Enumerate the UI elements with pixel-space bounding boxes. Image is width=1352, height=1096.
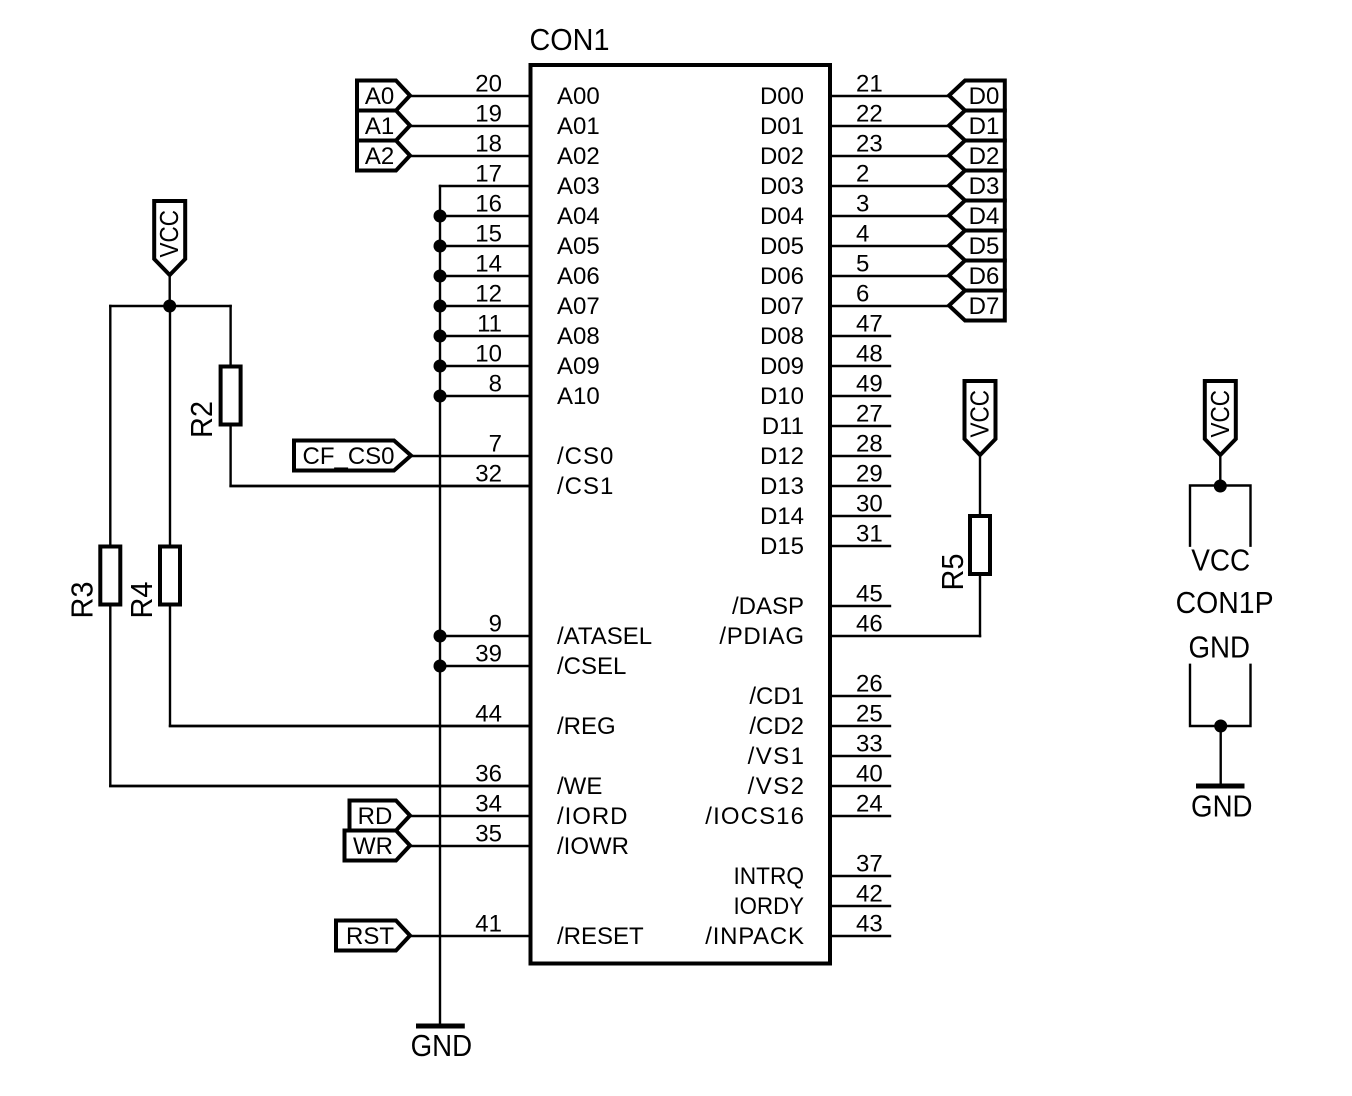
svg-text:48: 48 bbox=[856, 340, 883, 367]
resistor R3 bbox=[100, 547, 120, 605]
svg-text:19: 19 bbox=[475, 100, 502, 127]
junction CON1P VCC bbox=[1214, 480, 1227, 493]
resistor R4 bbox=[160, 547, 180, 605]
net flag WR bbox=[345, 831, 411, 861]
resistor R5 bbox=[970, 516, 990, 574]
pin 8 (A10) wire bbox=[440, 370, 600, 410]
pin 33 (/VS1) wire bbox=[748, 730, 890, 770]
pin label VCC (CON1P) bbox=[1191, 543, 1250, 578]
svg-text:A03: A03 bbox=[557, 173, 600, 200]
svg-text:7: 7 bbox=[489, 430, 502, 457]
svg-text:A01: A01 bbox=[557, 113, 600, 140]
pin 47 (D08) wire bbox=[760, 310, 890, 350]
svg-text:D13: D13 bbox=[760, 473, 804, 500]
svg-text:23: 23 bbox=[856, 130, 883, 157]
svg-text:D7: D7 bbox=[969, 293, 1000, 320]
pin 43 (/INPACK) wire bbox=[705, 910, 890, 950]
wire CON1P VCC pins bracket bbox=[1190, 486, 1251, 546]
svg-text:D01: D01 bbox=[760, 113, 804, 140]
pin 27 (D11) wire bbox=[762, 400, 890, 440]
svg-text:/VS1: /VS1 bbox=[748, 743, 804, 770]
svg-text:4: 4 bbox=[856, 220, 869, 247]
svg-text:16: 16 bbox=[475, 190, 502, 217]
svg-text:29: 29 bbox=[856, 460, 883, 487]
wire VCC to R3 bbox=[109, 306, 111, 547]
svg-text:D14: D14 bbox=[760, 503, 804, 530]
svg-text:A05: A05 bbox=[557, 233, 600, 260]
svg-text:D6: D6 bbox=[969, 263, 1000, 290]
net flag RST bbox=[336, 921, 410, 951]
svg-text:A07: A07 bbox=[557, 293, 600, 320]
net flag D7 bbox=[949, 291, 1005, 321]
svg-text:27: 27 bbox=[856, 400, 883, 427]
svg-text:A1: A1 bbox=[365, 113, 394, 140]
svg-text:31: 31 bbox=[856, 520, 883, 547]
svg-text:D10: D10 bbox=[760, 383, 804, 410]
svg-text:D0: D0 bbox=[969, 83, 1000, 110]
junction bus at pin row y=396 bbox=[434, 390, 447, 403]
pin 5 (D06) wire bbox=[760, 250, 949, 290]
svg-text:42: 42 bbox=[856, 880, 883, 907]
svg-text:28: 28 bbox=[856, 430, 883, 457]
svg-text:VCC: VCC bbox=[965, 390, 995, 438]
svg-text:24: 24 bbox=[856, 790, 883, 817]
wire VCC stem to junction bbox=[168, 275, 170, 306]
pin 10 (A09) wire bbox=[440, 340, 600, 380]
svg-text:44: 44 bbox=[475, 700, 502, 727]
power flag VCC (CON1P) bbox=[1205, 381, 1236, 455]
net flag D6 bbox=[949, 261, 1005, 291]
svg-text:D4: D4 bbox=[969, 203, 1000, 230]
junction bus at pin row y=276 bbox=[434, 270, 447, 283]
pin 14 (A06) wire bbox=[440, 250, 600, 290]
svg-text:10: 10 bbox=[475, 340, 502, 367]
svg-text:9: 9 bbox=[489, 610, 502, 637]
svg-text:D12: D12 bbox=[760, 443, 804, 470]
svg-text:A00: A00 bbox=[557, 83, 600, 110]
svg-text:A09: A09 bbox=[557, 353, 600, 380]
svg-text:3: 3 bbox=[856, 190, 869, 217]
pin 45 (/DASP) wire bbox=[732, 580, 890, 620]
svg-text:INTRQ: INTRQ bbox=[734, 863, 805, 890]
pin 31 (D15) wire bbox=[760, 520, 890, 560]
junction bus at pin row y=336 bbox=[434, 330, 447, 343]
svg-text:43: 43 bbox=[856, 910, 883, 937]
pin 41 (/RESET) wire bbox=[410, 910, 644, 950]
net flag CF_CS0 bbox=[294, 441, 411, 471]
svg-text:40: 40 bbox=[856, 760, 883, 787]
svg-text:D06: D06 bbox=[760, 263, 804, 290]
svg-text:R5: R5 bbox=[935, 554, 970, 591]
svg-text:37: 37 bbox=[856, 850, 883, 877]
label CON1 bbox=[530, 22, 610, 57]
svg-text:45: 45 bbox=[856, 580, 883, 607]
svg-text:A06: A06 bbox=[557, 263, 600, 290]
pin 21 (D00) wire bbox=[760, 70, 949, 110]
net flag A1 bbox=[357, 111, 410, 141]
label R5 bbox=[935, 554, 970, 591]
svg-text:34: 34 bbox=[475, 790, 502, 817]
junction at VCC node bbox=[163, 300, 176, 313]
junction bus at pin row y=246 bbox=[434, 240, 447, 253]
pin 48 (D09) wire bbox=[760, 340, 890, 380]
svg-text:D07: D07 bbox=[760, 293, 804, 320]
svg-text:D2: D2 bbox=[969, 143, 1000, 170]
pin 29 (D13) wire bbox=[760, 460, 890, 500]
svg-text:11: 11 bbox=[477, 310, 502, 337]
svg-text:D1: D1 bbox=[969, 113, 1000, 140]
power flag VCC (middle) bbox=[965, 381, 996, 455]
pin 35 (/IOWR) wire bbox=[410, 820, 629, 860]
wire VCC to R4 bbox=[169, 306, 171, 547]
pin 22 (D01) wire bbox=[760, 100, 949, 140]
label R2 bbox=[184, 401, 219, 438]
svg-text:12: 12 bbox=[475, 280, 502, 307]
svg-text:D09: D09 bbox=[760, 353, 804, 380]
wire R2 to /CS1 bbox=[231, 425, 531, 487]
svg-text:/PDIAG: /PDIAG bbox=[719, 623, 804, 650]
ground GND (bottom) bbox=[411, 1026, 473, 1063]
pin 23 (D02) wire bbox=[760, 130, 949, 170]
pin 28 (D12) wire bbox=[760, 430, 890, 470]
power flag VCC (left) bbox=[154, 201, 185, 275]
svg-text:R2: R2 bbox=[184, 401, 219, 438]
pin 6 (D07) wire bbox=[760, 280, 949, 320]
wire GND stem (CON1P) bbox=[1219, 726, 1221, 784]
svg-text:IORDY: IORDY bbox=[734, 893, 805, 920]
wire VCC to R2 bbox=[229, 306, 231, 367]
pin 18 (A02) wire bbox=[410, 130, 600, 170]
junction bus at pin row y=306 bbox=[434, 300, 447, 313]
net flag D5 bbox=[949, 231, 1005, 261]
svg-text:/IOCS16: /IOCS16 bbox=[705, 803, 804, 830]
net flag A2 bbox=[357, 141, 410, 171]
svg-text:21: 21 bbox=[856, 70, 883, 97]
svg-text:30: 30 bbox=[856, 490, 883, 517]
svg-text:RD: RD bbox=[358, 803, 393, 830]
svg-text:A2: A2 bbox=[365, 143, 394, 170]
svg-text:D00: D00 bbox=[760, 83, 804, 110]
svg-text:A0: A0 bbox=[365, 83, 394, 110]
svg-text:D3: D3 bbox=[969, 173, 1000, 200]
svg-text:D02: D02 bbox=[760, 143, 804, 170]
svg-text:D11: D11 bbox=[762, 413, 804, 440]
pin 12 (A07) wire bbox=[440, 280, 600, 320]
net flag A0 bbox=[357, 81, 410, 111]
svg-text:D04: D04 bbox=[760, 203, 804, 230]
svg-text:39: 39 bbox=[475, 640, 502, 667]
label CON1P bbox=[1176, 585, 1274, 620]
svg-text:26: 26 bbox=[856, 670, 883, 697]
svg-text:33: 33 bbox=[856, 730, 883, 757]
connector CON1 body bbox=[531, 65, 831, 964]
svg-text:14: 14 bbox=[475, 250, 502, 277]
pin 4 (D05) wire bbox=[760, 220, 949, 260]
svg-text:20: 20 bbox=[475, 70, 502, 97]
net flag D0 bbox=[949, 81, 1005, 111]
pin 37 (INTRQ) wire bbox=[734, 850, 891, 890]
svg-text:D05: D05 bbox=[760, 233, 804, 260]
pin 15 (A05) wire bbox=[440, 220, 600, 260]
svg-text:/IORD: /IORD bbox=[557, 803, 628, 830]
svg-text:WR: WR bbox=[353, 833, 393, 860]
svg-text:CON1P: CON1P bbox=[1176, 585, 1274, 620]
pin 7 (/CS0) wire bbox=[411, 430, 613, 470]
svg-text:/VS2: /VS2 bbox=[748, 773, 804, 800]
resistor R2 bbox=[221, 367, 241, 425]
svg-text:GND: GND bbox=[1191, 788, 1253, 823]
junction bus at pin row y=666 bbox=[434, 660, 447, 673]
svg-text:/CSEL: /CSEL bbox=[557, 653, 626, 680]
pin 3 (D04) wire bbox=[760, 190, 949, 230]
svg-text:A10: A10 bbox=[557, 383, 600, 410]
svg-text:/DASP: /DASP bbox=[732, 593, 804, 620]
svg-text:6: 6 bbox=[856, 280, 869, 307]
svg-text:CON1: CON1 bbox=[530, 22, 610, 57]
svg-text:R3: R3 bbox=[65, 582, 100, 619]
svg-text:/CS1: /CS1 bbox=[557, 473, 613, 500]
svg-text:/ATASEL: /ATASEL bbox=[557, 623, 652, 650]
pin 46 (/PDIAG) wire bbox=[719, 610, 980, 650]
svg-text:49: 49 bbox=[856, 370, 883, 397]
svg-text:D08: D08 bbox=[760, 323, 804, 350]
junction bus at pin row y=366 bbox=[434, 360, 447, 373]
svg-text:CF_CS0: CF_CS0 bbox=[302, 443, 394, 470]
svg-text:/CD1: /CD1 bbox=[749, 683, 804, 710]
svg-text:VCC: VCC bbox=[1205, 390, 1235, 438]
svg-text:17: 17 bbox=[475, 160, 502, 187]
junction CON1P GND bbox=[1214, 720, 1227, 733]
svg-text:R4: R4 bbox=[124, 582, 159, 619]
label R3 bbox=[65, 582, 100, 619]
svg-text:VCC: VCC bbox=[1191, 543, 1250, 578]
pin 19 (A01) wire bbox=[410, 100, 600, 140]
svg-text:RST: RST bbox=[346, 923, 394, 950]
pin 20 (A00) wire bbox=[410, 70, 600, 110]
svg-text:D03: D03 bbox=[760, 173, 804, 200]
pin 16 (A04) wire bbox=[440, 190, 600, 230]
pin 11 (A08) wire bbox=[440, 310, 600, 350]
svg-text:GND: GND bbox=[411, 1028, 473, 1063]
pin 26 (/CD1) wire bbox=[749, 670, 890, 710]
wire ground bus vertical bbox=[439, 186, 441, 1024]
svg-text:A04: A04 bbox=[557, 203, 600, 230]
pin 17 (A03) wire bbox=[440, 160, 600, 200]
pin 39 (/CSEL) wire bbox=[440, 640, 626, 680]
wire CON1P GND pins bracket bbox=[1190, 665, 1251, 726]
pin 49 (D10) wire bbox=[760, 370, 890, 410]
svg-text:/REG: /REG bbox=[557, 713, 616, 740]
svg-text:GND: GND bbox=[1188, 629, 1250, 664]
svg-text:5: 5 bbox=[856, 250, 869, 277]
pin 44 (/REG) wire bbox=[170, 700, 616, 740]
ground GND (CON1P) bbox=[1191, 786, 1253, 823]
svg-text:22: 22 bbox=[856, 100, 883, 127]
net flag RD bbox=[350, 801, 411, 831]
pin 42 (IORDY) wire bbox=[734, 880, 891, 920]
svg-text:18: 18 bbox=[475, 130, 502, 157]
pin 36 (/WE) wire bbox=[110, 760, 602, 800]
pin 32 (/CS1) wire bbox=[231, 460, 614, 500]
net flag D4 bbox=[949, 201, 1005, 231]
pin 40 (/VS2) wire bbox=[748, 760, 890, 800]
svg-text:41: 41 bbox=[475, 910, 502, 937]
pin label GND (CON1P) bbox=[1188, 629, 1250, 664]
svg-text:15: 15 bbox=[475, 220, 502, 247]
svg-text:A02: A02 bbox=[557, 143, 600, 170]
junction bus at pin row y=636 bbox=[434, 630, 447, 643]
svg-text:D15: D15 bbox=[760, 533, 804, 560]
svg-text:35: 35 bbox=[475, 820, 502, 847]
svg-text:/INPACK: /INPACK bbox=[705, 923, 804, 950]
pin 24 (/IOCS16) wire bbox=[705, 790, 890, 830]
svg-text:VCC: VCC bbox=[154, 210, 184, 258]
net flag D3 bbox=[949, 171, 1005, 201]
wire VCC to R5 bbox=[979, 455, 981, 516]
svg-text:/IOWR: /IOWR bbox=[557, 833, 629, 860]
svg-text:47: 47 bbox=[856, 310, 883, 337]
pin 25 (/CD2) wire bbox=[749, 700, 890, 740]
net flag D2 bbox=[949, 141, 1005, 171]
wire VCC stem (CON1P) bbox=[1219, 455, 1221, 486]
svg-text:A08: A08 bbox=[557, 323, 600, 350]
svg-text:2: 2 bbox=[856, 160, 869, 187]
junction bus at pin row y=216 bbox=[434, 210, 447, 223]
svg-text:/WE: /WE bbox=[557, 773, 602, 800]
svg-text:32: 32 bbox=[475, 460, 502, 487]
wire VCC rail horizontal bbox=[110, 305, 230, 307]
pin 34 (/IORD) wire bbox=[410, 790, 628, 830]
wire R4 to /REG bbox=[170, 605, 531, 727]
wire R5 to /PDIAG bbox=[979, 574, 981, 636]
wire R3 to /WE bbox=[110, 605, 530, 787]
svg-text:36: 36 bbox=[475, 760, 502, 787]
svg-text:8: 8 bbox=[489, 370, 502, 397]
pin 2 (D03) wire bbox=[760, 160, 949, 200]
label R4 bbox=[124, 582, 159, 619]
svg-text:25: 25 bbox=[856, 700, 883, 727]
pin 30 (D14) wire bbox=[760, 490, 890, 530]
svg-text:/CD2: /CD2 bbox=[749, 713, 804, 740]
svg-text:/CS0: /CS0 bbox=[557, 443, 613, 470]
svg-text:46: 46 bbox=[856, 610, 883, 637]
pin 9 (/ATASEL) wire bbox=[440, 610, 652, 650]
net flag D1 bbox=[949, 111, 1005, 141]
svg-text:/RESET: /RESET bbox=[557, 923, 644, 950]
svg-text:D5: D5 bbox=[969, 233, 1000, 260]
